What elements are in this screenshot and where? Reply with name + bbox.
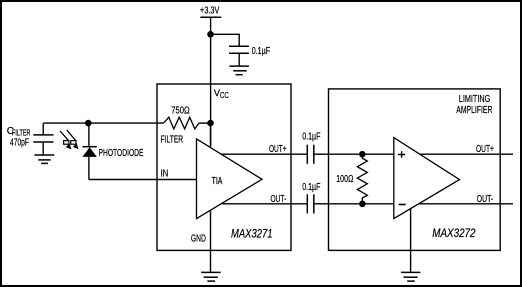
resistor R1 750 FILTER: [161, 105, 211, 145]
wire to bypass capacitor: [211, 34, 240, 46]
op-amp TIA: [197, 139, 263, 219]
svg-text:IN: IN: [161, 169, 169, 180]
svg-text:MAX3272: MAX3272: [432, 226, 475, 240]
wire +3.3V rail down to TIA: [210, 17, 212, 146]
op-amp U2 limiting amplifier: [394, 138, 460, 219]
wire U2 gnd: [410, 209, 412, 273]
ground CFILTER: [34, 155, 54, 163]
wire OUT+ (U1 to cap): [221, 153, 308, 155]
capacitor C2 0.1uF coupling OUT+: [302, 132, 320, 164]
svg-text:750Ω: 750Ω: [171, 105, 190, 116]
IC U1 MAX3271 box: [157, 84, 291, 250]
wire OUT- (U2): [419, 203, 513, 205]
capacitor C3 0.1uF coupling OUT-: [302, 182, 320, 213]
IC U2 MAX3272 box: [329, 89, 501, 251]
wire TIA gnd: [210, 211, 212, 273]
wire cap to amp - input: [314, 203, 394, 205]
power +3.3V: [200, 6, 221, 18]
wire OUT- (U1 to cap): [222, 203, 307, 205]
wire OUT+ (U2): [420, 153, 513, 155]
ground U1: [201, 272, 221, 281]
resistor R2 100: [336, 154, 367, 204]
svg-text:LIMITING: LIMITING: [459, 94, 491, 105]
svg-text:TIA: TIA: [212, 176, 223, 187]
svg-text:100Ω: 100Ω: [336, 174, 354, 185]
ground U2: [401, 272, 421, 281]
ground bypass: [229, 66, 249, 75]
svg-text:0.1µF: 0.1µF: [302, 132, 320, 143]
node junction 100ohm top: [359, 151, 366, 158]
photodiode D1: [82, 123, 96, 179]
node junction +3.3V/bypass: [207, 31, 214, 38]
wire VCC junction to TIA: [210, 123, 212, 147]
capacitor C1 0.1uF bypass: [229, 46, 270, 66]
light arrow 1: [60, 131, 71, 149]
svg-text:OUT+: OUT+: [476, 144, 494, 155]
node junction 100ohm bottom: [359, 201, 366, 208]
capacitor CFILTER 470pF: [7, 123, 54, 155]
svg-text:FILTER: FILTER: [12, 129, 31, 138]
svg-text:FILTER: FILTER: [161, 133, 184, 145]
svg-text:0.1µF: 0.1µF: [302, 182, 320, 193]
svg-text:470pF: 470pF: [10, 137, 29, 148]
wire cap to amp + input: [314, 153, 394, 155]
svg-text:AMPLIFIER: AMPLIFIER: [456, 105, 492, 116]
node junction VCC/filter: [207, 120, 214, 127]
svg-text:+3.3V: +3.3V: [200, 6, 220, 17]
svg-text:0.1µF: 0.1µF: [252, 46, 270, 57]
wire node CFILTER/photodiode/filter-resistor: [43, 122, 163, 124]
node junction photodiode: [85, 120, 92, 127]
light arrow 2: [67, 130, 79, 149]
svg-text:GND: GND: [191, 233, 206, 245]
label LIMITING AMPLIFIER: [456, 94, 492, 116]
wire photodiode to IN: [89, 179, 197, 181]
svg-text:PHOTODIODE: PHOTODIODE: [99, 148, 144, 159]
svg-text:MAX3271: MAX3271: [231, 227, 273, 241]
